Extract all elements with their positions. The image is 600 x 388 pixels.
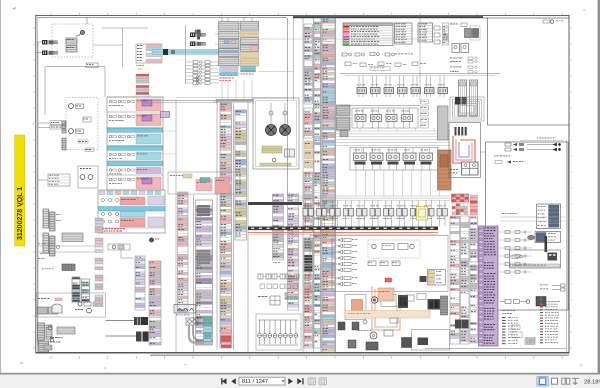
svg-text:All Page: All Page [22, 195, 25, 205]
svg-text:28.18%: 28.18% [584, 380, 600, 386]
svg-text:811 / 1247: 811 / 1247 [242, 379, 268, 385]
svg-text:31200278 VOL 1: 31200278 VOL 1 [17, 187, 24, 240]
